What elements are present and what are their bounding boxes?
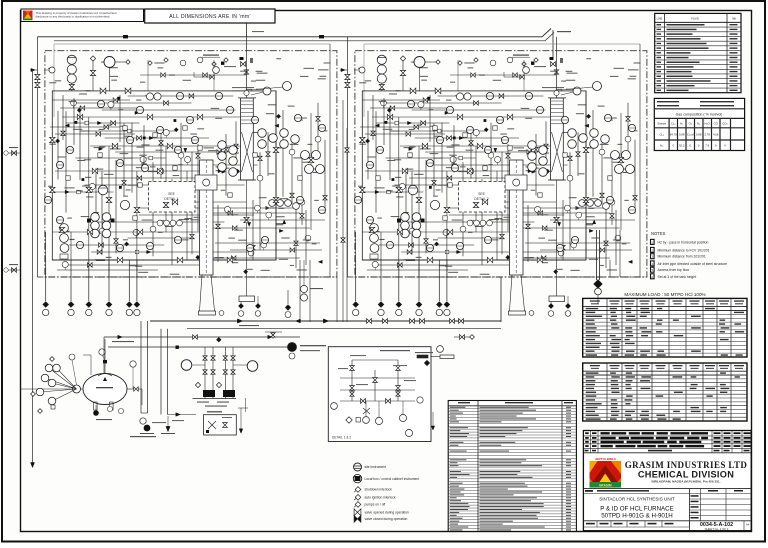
svg-text:site instrument: site instrument [365,465,387,469]
svg-text:92.2: 92.2 [679,144,685,148]
svg-text:pumps on / off: pumps on / off [365,503,386,507]
svg-text:50TPD H-901G & H-901H: 50TPD H-901G & H-901H [601,513,673,520]
svg-text:2.78: 2.78 [704,133,710,137]
svg-text:shutdown interlock: shutdown interlock [365,487,393,491]
svg-text:Air inlet pipe directed outsid: Air inlet pipe directed outside of steel… [658,262,728,266]
svg-text:GRASIM INDUSTRIES LTD: GRASIM INDUSTRIES LTD [625,460,748,470]
svg-text:MAXIMUM LOAD : 50 MTPD HCl 10: MAXIMUM LOAD : 50 MTPD HCl 100% [624,292,705,297]
svg-text:84.78: 84.78 [670,133,677,137]
svg-text:H₂: H₂ [680,122,683,126]
svg-text:SINTACLOR HCL SYNTHESIS UNIT: SINTACLOR HCL SYNTHESIS UNIT [599,496,675,501]
svg-text:O₂: O₂ [689,122,692,126]
svg-text:Access from top floor: Access from top floor [658,268,691,272]
svg-text:disclosure to any third party: disclosure to any third party or duplica… [36,15,111,19]
svg-text:Gas composition ( % mol/vol): Gas composition ( % mol/vol) [676,113,723,117]
svg-text:DETAIL 1 & 2: DETAIL 1 & 2 [332,436,351,440]
svg-text:FLUID: FLUID [691,17,699,21]
svg-text:SEE: SEE [478,192,486,196]
svg-text:Local box / control cabinet in: Local box / control cabinet instrument [365,477,420,481]
svg-text:P & ID OF HCL FURNACE: P & ID OF HCL FURNACE [600,505,674,512]
svg-text:LINE: LINE [657,17,663,21]
svg-text:BIRLAGRAM, NAGDA (M.P) INDIA,: BIRLAGRAM, NAGDA (M.P) INDIA, Pin 456 33… [652,480,721,484]
svg-text:Minimum distance from 101/201: Minimum distance from 101/201 [658,255,706,259]
svg-text:valve closed during operation: valve closed during operation [365,517,408,521]
svg-text:Set at 3 of the tank height: Set at 3 of the tank height [658,275,697,279]
svg-text:GRASIM: GRASIM [599,484,612,488]
svg-text:Stream: Stream [657,122,667,126]
svg-text:ALL DIMENSIONS ARE IN 'mm': ALL DIMENSIONS ARE IN 'mm' [169,14,251,20]
svg-text:CL₂: CL₂ [671,122,676,126]
svg-text:H₂O: H₂O [705,122,711,126]
svg-text:SEE: SEE [168,192,176,196]
svg-text:N₂: N₂ [697,122,700,126]
svg-text:NOTES: NOTES [651,231,666,236]
svg-text:H2 by - pass in horizontal pos: H2 by - pass in horizontal position [658,240,709,244]
svg-text:CL₂: CL₂ [659,133,664,137]
svg-text:ADITYA BIRLA: ADITYA BIRLA [595,457,617,461]
svg-text:SHEET No. 2 OF 3: SHEET No. 2 OF 3 [705,527,729,531]
svg-text:4.56: 4.56 [713,133,719,137]
svg-text:valve opened during operation: valve opened during operation [365,510,410,514]
svg-text:Co.al: Co.al [687,133,694,137]
svg-text:CHEMICAL DIVISION: CHEMICAL DIVISION [638,470,734,480]
svg-text:0.88: 0.88 [696,133,702,137]
svg-text:A4: A4 [746,523,750,527]
svg-text:CO₂: CO₂ [722,122,727,126]
svg-text:auto ignition interlock: auto ignition interlock [365,495,396,499]
svg-text:NB: NB [732,17,736,21]
svg-text:0.88: 0.88 [679,133,685,137]
svg-text:H₂: H₂ [660,144,663,148]
svg-text:7.8: 7.8 [705,144,709,148]
svg-text:Minimum distance to FCV 101/20: Minimum distance to FCV 101/201 [658,248,710,252]
